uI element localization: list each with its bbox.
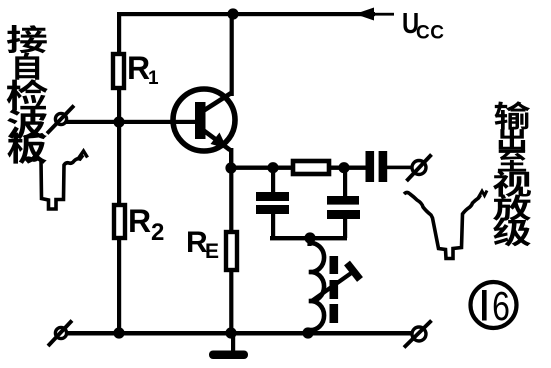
svg-text:CC: CC bbox=[416, 23, 444, 44]
svg-text:2: 2 bbox=[151, 219, 164, 246]
svg-text:E: E bbox=[205, 240, 219, 263]
svg-text:1: 1 bbox=[148, 68, 159, 89]
svg-text:6: 6 bbox=[492, 283, 510, 329]
svg-text:R: R bbox=[127, 50, 150, 86]
svg-text:R: R bbox=[128, 203, 151, 239]
